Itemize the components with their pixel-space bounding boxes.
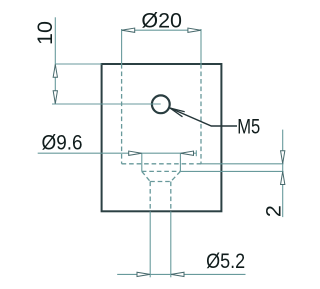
hole centerline / 10 extension bottom (52, 103, 161, 105)
2 extension upper (201, 163, 284, 165)
D20 arrow right (188, 28, 201, 32)
D9.6 arrow right (outside) (181, 151, 194, 155)
D20 extension right (200, 29, 202, 64)
10 extension top (55, 63, 101, 65)
hidden stem right (170, 182, 172, 212)
svg-text:Ø5.2: Ø5.2 (206, 249, 245, 273)
10 dimension line (54, 17, 56, 104)
part body outline (102, 64, 222, 211)
hidden face A (122, 163, 201, 165)
svg-text:M5: M5 (237, 115, 260, 139)
D5.2 arrow left (outside) (137, 272, 150, 276)
10 arrow up (53, 64, 57, 77)
funnel bottom C (150, 181, 171, 183)
2 arrow lower (outside) (281, 172, 285, 185)
funnel diagonal right (171, 171, 181, 181)
hidden stem left (149, 182, 151, 212)
hidden cylinder D20 left (121, 64, 123, 164)
10 arrow down (53, 91, 57, 104)
D20 extension left (121, 29, 123, 64)
svg-text:10: 10 (33, 21, 57, 45)
D20 arrow left (122, 28, 135, 32)
dimension arrowheads (open) (53, 28, 285, 276)
thin solid lines (38, 17, 284, 277)
D5.2 arrow right (outside) (171, 272, 184, 276)
stem silhouette right (170, 211, 172, 277)
2 arrow upper (outside) (281, 151, 285, 164)
D20 dimension line (122, 29, 201, 31)
svg-text:Ø9.6: Ø9.6 (42, 131, 83, 155)
hidden counterbore top B (142, 170, 181, 172)
svg-text:2: 2 (262, 205, 286, 217)
D9.6 extension left (141, 153, 143, 171)
D9.6 dimension line (38, 152, 197, 154)
2 extension lower (180, 170, 283, 172)
D9.6 terminator tick (195, 150, 197, 156)
funnel diagonal left (142, 171, 150, 181)
M5 leader arrowhead (170, 108, 185, 117)
svg-text:Ø20: Ø20 (141, 8, 182, 32)
hidden (dashed) lines (122, 64, 201, 211)
M5 leader line (170, 108, 237, 126)
D5.2 dimension line (117, 273, 245, 275)
stem silhouette left (149, 211, 151, 277)
D9.6 arrow left (outside) (129, 151, 142, 155)
M5 tapped hole circle (152, 95, 170, 113)
2 dimension line (282, 130, 284, 218)
D9.6 extension right (179, 153, 181, 171)
hidden cylinder D20 right (200, 64, 202, 164)
